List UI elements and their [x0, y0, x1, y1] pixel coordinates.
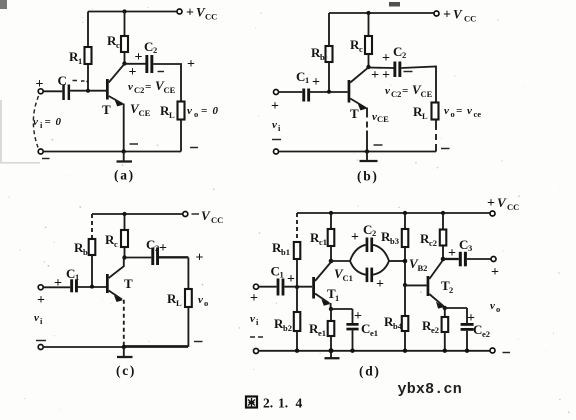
svg-text:C: C [459, 237, 468, 252]
svg-text:(d): (d) [359, 364, 381, 379]
svg-text:v: v [198, 294, 203, 306]
svg-text:CE: CE [377, 114, 389, 124]
svg-text:CE: CE [421, 89, 433, 99]
svg-text:T: T [124, 276, 133, 291]
svg-text:b2: b2 [283, 323, 292, 333]
svg-text:CC: CC [205, 12, 217, 22]
svg-text:v: v [34, 312, 39, 324]
svg-text:1: 1 [335, 293, 339, 303]
svg-text:v: v [467, 105, 472, 117]
svg-text:b: b [83, 247, 88, 257]
svg-text:v: v [128, 81, 133, 93]
svg-text:1: 1 [280, 270, 284, 280]
svg-text:+: + [36, 77, 44, 92]
svg-text:i: i [256, 317, 259, 327]
svg-text:2: 2 [449, 285, 453, 295]
svg-text:0: 0 [56, 116, 62, 128]
svg-text:o: o [194, 109, 198, 119]
svg-text:T: T [102, 102, 111, 117]
svg-text:+: + [351, 230, 359, 245]
svg-text:C1: C1 [343, 273, 353, 283]
svg-text:v: v [33, 116, 38, 128]
svg-text:+: + [382, 51, 390, 66]
svg-text:b4: b4 [393, 321, 403, 331]
svg-text:=: = [45, 116, 51, 128]
svg-text:V: V [201, 208, 211, 223]
svg-text:C: C [58, 73, 67, 88]
svg-text:+: + [250, 291, 258, 306]
svg-text:C: C [296, 69, 305, 84]
svg-text:T: T [350, 106, 359, 121]
svg-text:C: C [473, 322, 482, 337]
svg-text:0: 0 [213, 105, 219, 117]
svg-text:C: C [363, 222, 372, 237]
svg-text:CC: CC [211, 215, 223, 225]
svg-text:L: L [169, 110, 175, 120]
svg-text:1: 1 [78, 56, 82, 66]
svg-text:+: + [187, 57, 195, 72]
svg-text:c1: c1 [319, 237, 327, 247]
svg-text:V: V [453, 7, 463, 22]
svg-text:e2: e2 [431, 325, 439, 335]
svg-text:+: + [159, 241, 167, 256]
svg-text:CC: CC [507, 202, 519, 212]
svg-text:+: + [186, 6, 194, 21]
svg-text:e1: e1 [370, 328, 378, 338]
svg-text:C: C [361, 321, 370, 336]
svg-text:B2: B2 [418, 263, 428, 273]
svg-text:1: 1 [305, 75, 309, 85]
svg-text:v: v [490, 300, 495, 312]
svg-text:C2: C2 [134, 85, 144, 95]
svg-text:+: + [135, 50, 143, 65]
svg-text:i: i [40, 120, 43, 130]
svg-text:c: c [359, 44, 363, 54]
svg-text:V: V [497, 195, 507, 210]
svg-text:2.: 2. [263, 396, 273, 411]
svg-text:(a): (a) [114, 168, 135, 183]
svg-text:CC: CC [464, 14, 476, 24]
svg-text:+: + [54, 276, 62, 291]
svg-text:o: o [204, 298, 208, 308]
svg-text:3: 3 [468, 243, 472, 253]
svg-text:+: + [487, 196, 495, 211]
svg-text:+: + [376, 277, 384, 292]
svg-text:v: v [187, 105, 192, 117]
svg-text:+: + [129, 65, 137, 80]
svg-text:c: c [116, 40, 120, 50]
svg-text:+: + [448, 246, 456, 261]
svg-text:2: 2 [372, 228, 376, 238]
svg-text:b1: b1 [281, 247, 290, 257]
svg-text:L: L [176, 298, 182, 308]
svg-text:1.: 1. [278, 396, 288, 411]
svg-text:i: i [40, 316, 43, 326]
svg-text:c2: c2 [429, 238, 437, 248]
svg-text:b3: b3 [390, 236, 399, 246]
svg-text:+: + [287, 272, 295, 287]
svg-text:v: v [385, 85, 390, 97]
svg-text:C2: C2 [391, 89, 401, 99]
svg-text:=: = [145, 81, 151, 93]
svg-text:v: v [272, 119, 277, 131]
svg-text:ybx8.cn: ybx8.cn [398, 381, 462, 398]
svg-text:=: = [402, 85, 408, 97]
svg-text:+: + [37, 293, 45, 308]
svg-text:C: C [271, 264, 280, 279]
svg-text:C: C [393, 44, 402, 59]
svg-text:+: + [491, 265, 499, 280]
svg-text:L: L [422, 111, 428, 121]
svg-text:o: o [496, 304, 500, 314]
svg-text:i: i [278, 123, 281, 133]
svg-text:e2: e2 [482, 329, 490, 339]
svg-text:=: = [456, 105, 462, 117]
svg-text:(c): (c) [116, 363, 136, 378]
svg-text:ce: ce [474, 109, 482, 119]
svg-text:v: v [444, 105, 449, 117]
svg-text:v: v [250, 313, 255, 325]
svg-text:4: 4 [296, 396, 303, 411]
svg-text:e1: e1 [318, 328, 326, 338]
svg-text:+: + [382, 68, 390, 83]
svg-text:C: C [146, 237, 155, 252]
svg-text:2: 2 [402, 50, 406, 60]
svg-text:+: + [443, 8, 451, 23]
svg-text:o: o [451, 109, 455, 119]
svg-text:+: + [196, 251, 204, 266]
svg-text:2: 2 [153, 45, 157, 55]
svg-text:C: C [66, 266, 75, 281]
svg-text:=: = [201, 105, 207, 117]
svg-text:+: + [312, 75, 320, 90]
svg-text:b: b [320, 52, 325, 62]
svg-text:+: + [371, 68, 379, 83]
svg-text:CE: CE [139, 108, 151, 118]
svg-text:c: c [114, 239, 118, 249]
svg-text:CE: CE [164, 85, 176, 95]
svg-text:(b): (b) [357, 169, 379, 184]
svg-text:+: + [271, 99, 279, 114]
svg-text:C: C [144, 39, 153, 54]
